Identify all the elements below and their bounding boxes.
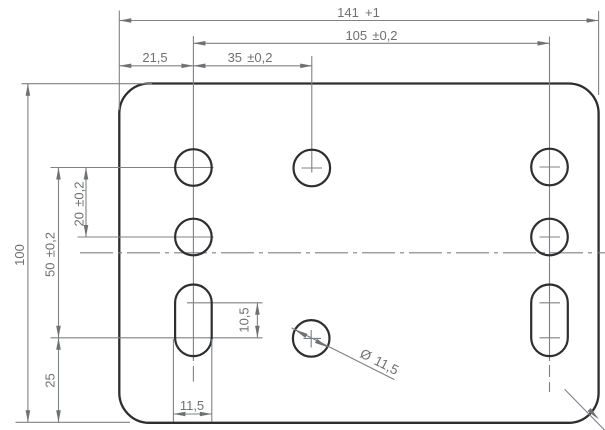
svg-text:Ø 11,5: Ø 11,5 xyxy=(358,346,402,378)
corner radius leader arrow xyxy=(588,408,600,420)
dimension 11,5 arrow right xyxy=(200,412,212,417)
slot left xyxy=(175,285,212,357)
dimension 100 arrow bottom xyxy=(26,410,31,422)
dimension 25 arrow top xyxy=(56,338,61,350)
cross tick right slot bottom arc xyxy=(540,337,561,339)
dimension 50 line xyxy=(58,168,60,338)
diameter leader line xyxy=(292,328,395,380)
dimension 35 arrow right xyxy=(300,64,312,69)
dimension 50 arrow bottom xyxy=(56,326,61,338)
cross tick right slot top arc xyxy=(540,302,561,304)
slot right xyxy=(531,285,568,357)
svg-text:100: 100 xyxy=(12,244,27,266)
svg-text:141 +1: 141 +1 xyxy=(337,5,380,20)
dimension 10,5 arrow bottom xyxy=(255,326,260,338)
svg-text:25: 25 xyxy=(43,373,58,387)
dimension 105 arrow left xyxy=(193,41,205,46)
dimension 35 arrow left xyxy=(193,64,205,69)
centerline hole column 1 dashed tail xyxy=(192,366,194,382)
dimension 20 line xyxy=(85,168,87,238)
hole mid-left xyxy=(175,219,212,256)
corner radius leader line xyxy=(565,389,605,430)
dimension 105 arrow right xyxy=(538,41,550,46)
diameter leader arrow lower-right xyxy=(315,339,329,348)
horizontal centerline of plate xyxy=(80,252,605,254)
hole top-middle xyxy=(294,150,331,187)
extension line slot left side xyxy=(172,339,174,422)
extension line slot top arc center xyxy=(187,302,263,304)
extension line slot bottom arc center xyxy=(51,337,263,339)
svg-text:50 ±0,2: 50 ±0,2 xyxy=(43,232,58,277)
dimension 100 arrow top xyxy=(26,84,31,96)
dimension 141 +1 line xyxy=(119,20,598,22)
cross tick diameter hole vertical xyxy=(310,330,312,348)
extension line row top holes xyxy=(51,167,214,169)
centerline hole column 2 xyxy=(311,56,313,173)
centerline hole column 3 dashed tail xyxy=(549,365,551,392)
extension line top edge left xyxy=(22,83,153,85)
extension line left plate corner vertical xyxy=(118,11,120,111)
dimension 25 arrow bottom xyxy=(56,410,61,422)
dimension 50 arrow top xyxy=(56,168,61,180)
svg-text:10,5: 10,5 xyxy=(237,307,252,332)
extension line bottom edge left xyxy=(16,421,131,423)
extension line slot right side xyxy=(211,339,213,422)
hole top-right xyxy=(531,149,568,186)
centerline hole column 3 xyxy=(549,37,551,362)
plate outline xyxy=(119,84,598,423)
cross tick diameter hole horizontal xyxy=(304,337,322,339)
dimension 21,5 arrow right xyxy=(181,64,193,69)
extension line row second holes xyxy=(78,236,214,238)
dimension 100 line xyxy=(27,84,29,423)
cross tick right hole row1 xyxy=(540,166,561,168)
dimension 35 line xyxy=(193,65,312,67)
dimension 141 arrow right xyxy=(587,18,599,23)
dimension 11,5 arrow left xyxy=(173,412,185,417)
dimension 10,5 line xyxy=(256,303,258,338)
svg-text:11,5: 11,5 xyxy=(180,398,204,413)
dimension 21,5 line xyxy=(119,65,193,67)
svg-text:21,5: 21,5 xyxy=(142,50,167,65)
svg-text:35 ±0,2: 35 ±0,2 xyxy=(228,50,273,65)
dimension 20 arrow top xyxy=(84,168,89,180)
dimension 25 line xyxy=(58,338,60,423)
dimension 11,5 line xyxy=(173,413,211,415)
extension line right plate corner vertical xyxy=(598,11,600,95)
dimension 141 arrow left xyxy=(119,18,131,23)
dimension 10,5 arrow top xyxy=(255,303,260,315)
hole mid-right xyxy=(531,219,568,256)
cross tick right hole row2 xyxy=(540,236,561,238)
svg-text:105 ±0,2: 105 ±0,2 xyxy=(345,28,397,43)
svg-text:20 ±0,2: 20 ±0,2 xyxy=(72,182,87,227)
diameter leader arrow upper-left xyxy=(294,329,308,338)
dimension 105 line xyxy=(193,42,549,44)
dimension 20 arrow bottom xyxy=(84,225,89,237)
cross tick top middle hole xyxy=(302,167,323,169)
centerline hole column 1 xyxy=(192,36,194,361)
dimension 21,5 arrow left xyxy=(119,64,131,69)
hole diameter 11.5 xyxy=(293,320,330,357)
hole top-left xyxy=(175,149,212,186)
